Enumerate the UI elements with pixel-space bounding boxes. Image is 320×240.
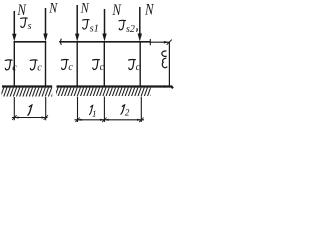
- label J_c 1: [5, 60, 17, 74]
- label J_c 2: [30, 60, 42, 74]
- arrowhead at top of height dimension: [164, 40, 172, 45]
- arrowhead at bottom of height dimension: [164, 85, 169, 88]
- ground hatching (right frame): [56, 88, 151, 96]
- svg-text:N: N: [48, 0, 58, 16]
- height dimension line l_c: [168, 42, 170, 86]
- dimension line l1 l2 (right frame): [75, 118, 145, 123]
- label l (left dimension): [28, 105, 32, 115]
- label l_2: [121, 105, 130, 118]
- beam left end tick: [60, 39, 63, 45]
- svg-text:c: c: [136, 62, 141, 73]
- label J_s1 (right beam span 1): [83, 20, 99, 35]
- extension line right-frame 3: [140, 97, 142, 123]
- force N arrow 5: [138, 7, 142, 42]
- column right-frame 3: [139, 41, 141, 87]
- extension line left-frame 1: [13, 97, 15, 120]
- column left-frame 2: [45, 41, 47, 87]
- ground line (left frame): [2, 85, 52, 87]
- label J_c 4: [93, 60, 105, 74]
- ground line (right frame): [57, 87, 174, 89]
- beam (right frame): [59, 41, 150, 43]
- label J_c 5: [129, 60, 141, 74]
- label J_s2 (right beam span 2): [119, 20, 135, 35]
- label J_c 3: [61, 60, 73, 74]
- svg-text:c: c: [37, 63, 42, 74]
- column right-frame 1: [76, 41, 78, 87]
- svg-text:c: c: [12, 63, 17, 74]
- beam (left frame): [14, 41, 47, 43]
- svg-text:s2: s2: [126, 24, 135, 35]
- column right-frame 2: [103, 41, 105, 87]
- column left-frame 1: [13, 41, 15, 87]
- stray mark (comma after J_s2): [136, 29, 139, 32]
- svg-text:c: c: [100, 62, 105, 73]
- svg-text:N: N: [144, 1, 155, 19]
- dimension line l (left frame): [12, 115, 48, 120]
- leader line to height dimension: [150, 41, 169, 43]
- extension line left-frame 2: [45, 97, 47, 120]
- svg-text:1: 1: [92, 109, 97, 119]
- force N arrow 4: [102, 9, 106, 42]
- svg-text:c: c: [68, 62, 73, 73]
- label l_1: [89, 105, 96, 119]
- force N arrow 2: [43, 8, 47, 42]
- extension line right-frame 2: [103, 97, 105, 123]
- ground hatching (left frame): [2, 88, 53, 97]
- svg-text:N: N: [17, 2, 28, 20]
- svg-text:2: 2: [125, 108, 130, 118]
- force N arrow 3: [75, 5, 79, 42]
- label l_c (height dimension, rotated): [162, 51, 167, 68]
- svg-text:s1: s1: [90, 24, 99, 35]
- label J_s (left beam): [21, 18, 32, 32]
- svg-text:N: N: [112, 2, 123, 20]
- svg-text:s: s: [28, 21, 32, 32]
- extension line right-frame 1: [77, 97, 79, 123]
- force N arrow 1: [12, 11, 16, 42]
- beam right end tick: [149, 39, 151, 45]
- svg-text:N: N: [80, 0, 90, 16]
